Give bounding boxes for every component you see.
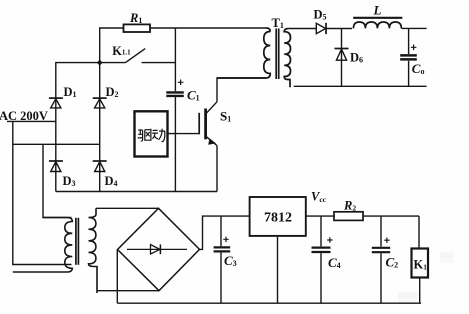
wire AC1 down to aux transformer primary bottom bbox=[13, 121, 72, 264]
regulator U1 7812 bbox=[250, 197, 306, 236]
svg-text:7812: 7812 bbox=[264, 211, 292, 226]
wire D5 cathode to L bbox=[326, 28, 352, 30]
diode D4 bbox=[93, 161, 118, 188]
wire AC terminal 1 bbox=[7, 120, 56, 122]
wire Vcc rail bbox=[305, 215, 419, 217]
wire gate lead bbox=[168, 133, 199, 135]
wire bridge left corner to ground rail bbox=[116, 250, 118, 304]
wire aux secondary bottom to bridge bottom corner bbox=[97, 290, 159, 292]
diode D6 bbox=[335, 29, 364, 87]
wire collector to T1 primary bottom bbox=[217, 78, 266, 102]
diode D2 bbox=[93, 85, 119, 108]
wire secondary bottom rail bbox=[294, 85, 427, 87]
diode D1 bbox=[49, 85, 77, 108]
transformer T2 auxiliary bbox=[13, 208, 97, 293]
capacitor C3 bbox=[214, 216, 237, 303]
relay coil K1 bbox=[412, 216, 429, 303]
capacitor C2 bbox=[372, 216, 398, 303]
transformer T1 bbox=[217, 16, 290, 87]
capacitor C4 bbox=[312, 216, 341, 303]
wire bridge right corner to 7812 input bbox=[200, 216, 250, 249]
resistor R2 bbox=[334, 199, 363, 221]
svg-text:▒▒: ▒▒ bbox=[440, 252, 453, 263]
wire C1 bottom to rail bbox=[174, 97, 176, 191]
bridge rectifier B1 bbox=[118, 208, 200, 290]
wire ground rail bottom bbox=[117, 302, 421, 304]
wire emitter to rail bbox=[216, 146, 218, 192]
switch K1.1 bbox=[100, 44, 176, 63]
wire aux secondary top to bridge top corner bbox=[96, 207, 159, 209]
svg-text:L: L bbox=[373, 3, 382, 18]
wire L to output bbox=[401, 27, 426, 29]
wire C1 branch vertical bbox=[174, 28, 176, 91]
svg-text:▒▒▒: ▒▒▒ bbox=[398, 292, 418, 303]
diode D5 bbox=[314, 8, 327, 35]
resistor R1 bbox=[124, 11, 151, 32]
inductor L bbox=[353, 3, 402, 29]
wire T1 secondary top to D5 bbox=[289, 28, 316, 30]
watermark bbox=[398, 252, 453, 303]
wire AC terminal 2 bbox=[13, 143, 100, 145]
diode D3 bbox=[49, 161, 76, 188]
wire D2 to D4 branch bbox=[99, 63, 101, 192]
drive box 驱动 bbox=[135, 111, 168, 156]
capacitor Co bbox=[400, 28, 424, 86]
wire node to D1 branch bbox=[56, 63, 100, 192]
wire 7812 ground pin bbox=[277, 236, 279, 303]
wire negative rail of input bridge bbox=[56, 191, 217, 193]
wire AC2 down to aux transformer primary top bbox=[43, 144, 72, 217]
transistor S1 bbox=[199, 102, 231, 146]
wire top rail from node to T1 primary top bbox=[100, 28, 266, 63]
capacitor C1 bbox=[166, 80, 199, 103]
node A (junction dot) bbox=[98, 60, 102, 64]
